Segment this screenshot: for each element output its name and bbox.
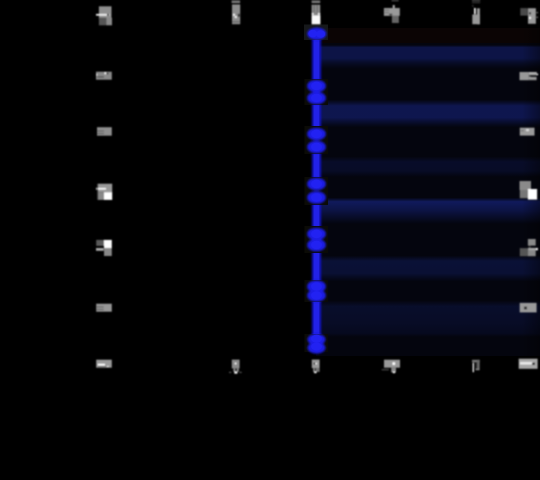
base wash right of line — [316, 28, 540, 356]
markers — [307, 28, 326, 354]
left label L4 — [96, 184, 112, 200]
bottom label BT3 — [382, 360, 400, 374]
left label L5 — [96, 240, 112, 256]
right edge vignette — [0, 0, 1, 1]
left label L2 — [96, 72, 112, 80]
marker cores — [308, 30, 325, 351]
band 6 — [316, 301, 540, 337]
bottom label BT1 — [229, 360, 242, 374]
top label T4 — [472, 0, 480, 24]
marker halos (jpeg-like) — [305, 79, 329, 352]
bottom label BT2 — [312, 360, 320, 374]
left label L3 — [97, 127, 112, 136]
band 1 — [316, 45, 540, 69]
data line — [312, 28, 321, 349]
band 3 — [316, 157, 540, 177]
tick labels — [96, 0, 538, 374]
left label L6 — [96, 304, 112, 312]
right label R4 — [520, 181, 538, 200]
bottom label BT4 — [472, 360, 480, 372]
band 4 — [316, 198, 540, 224]
faint warm tint above band 1 — [322, 28, 540, 43]
right label R3 — [520, 128, 535, 136]
right label R2 — [520, 72, 539, 80]
right label R5 — [520, 239, 538, 256]
left label L1 — [96, 6, 112, 25]
band 5 — [316, 256, 540, 281]
right label R1 (corner, also top row) — [520, 8, 538, 24]
top label T3 — [384, 0, 400, 23]
right label R6 — [520, 303, 537, 313]
top label T1 — [232, 0, 241, 24]
right label R7 (corner, also bottom row) — [519, 359, 538, 369]
top label T2 — [312, 0, 321, 24]
marker halo top — [304, 25, 328, 41]
left label L7 — [96, 360, 112, 368]
band 2 — [316, 100, 540, 127]
